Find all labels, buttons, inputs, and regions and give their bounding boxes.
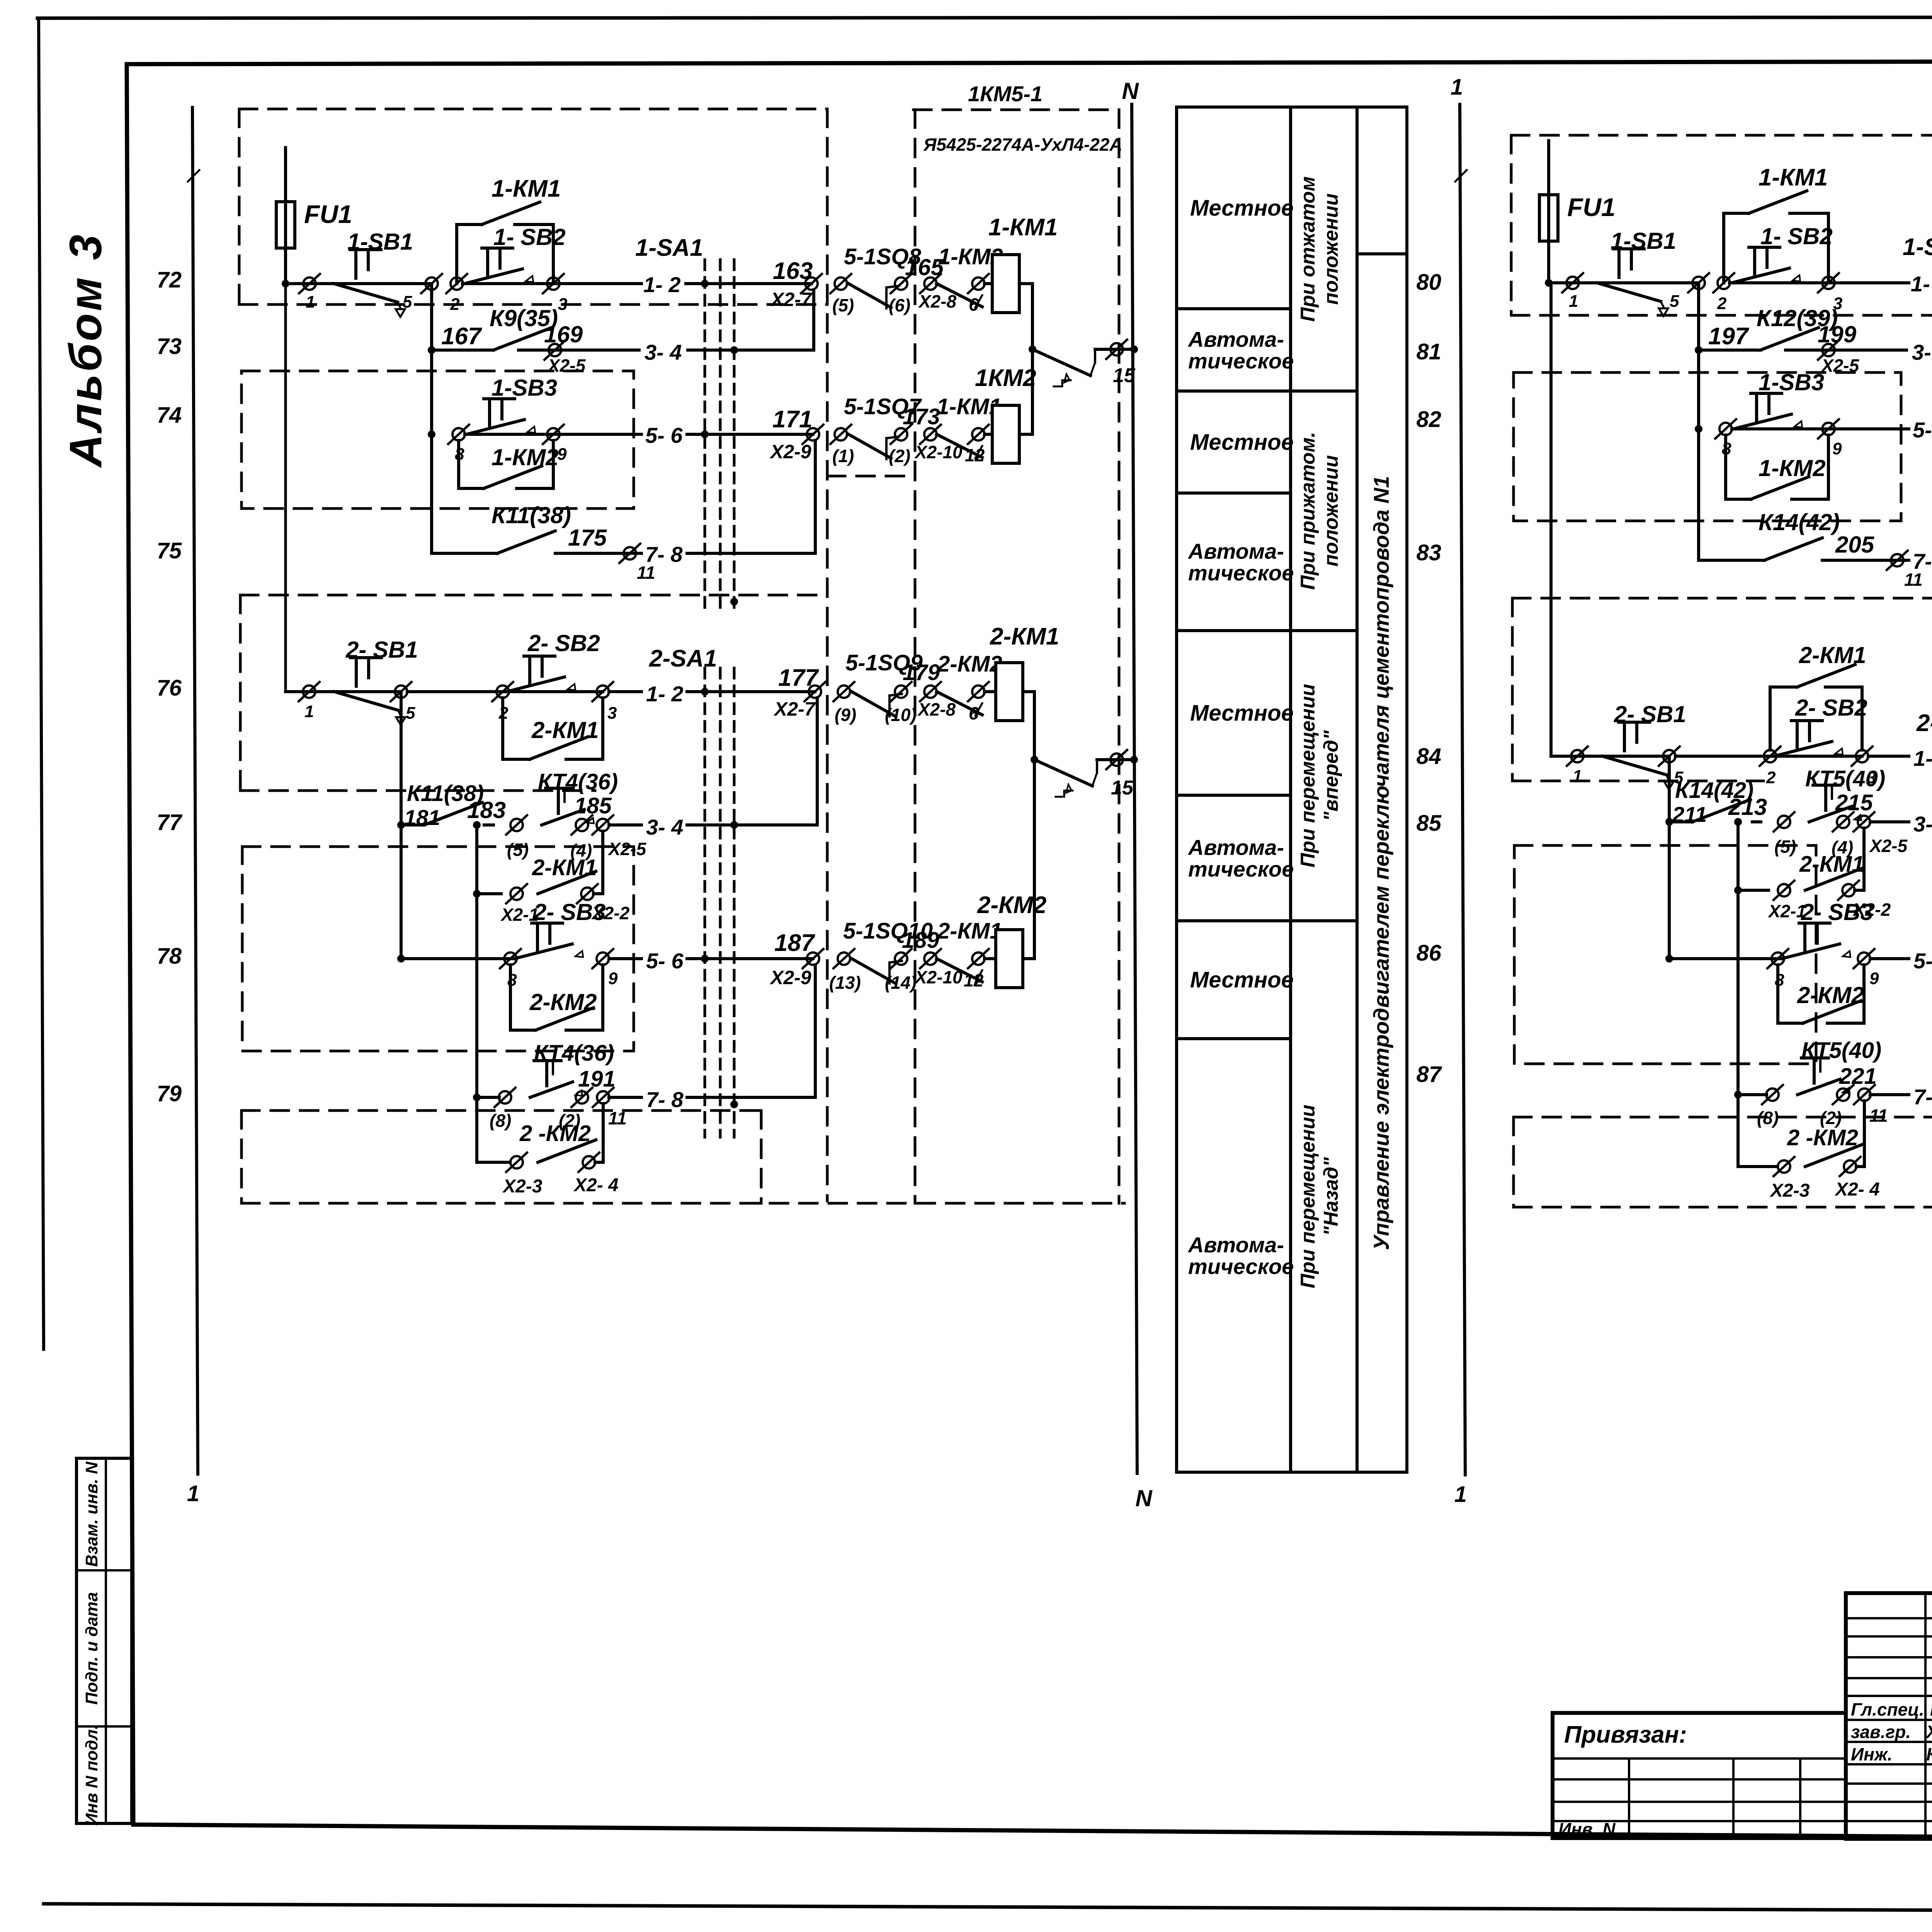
- L selfhold 1-KM2 right riser: [552, 440, 555, 488]
- R terminal 8: [1715, 419, 1736, 439]
- L terminal X2-10: [920, 425, 941, 444]
- svg-text:1КМ2: 1КМ2: [975, 365, 1036, 391]
- L cable junction dot: [701, 280, 709, 287]
- svg-text:X2-10: X2-10: [914, 967, 963, 987]
- L limit switch contact SQ7: [849, 434, 891, 458]
- svg-text:X2-5: X2-5: [1869, 836, 1908, 856]
- margin stamp line 2: [77, 1725, 132, 1728]
- svg-text:211: 211: [1672, 802, 1707, 827]
- R wire row2 3-4 lead: [1752, 820, 1761, 823]
- svg-text:1-КМ1: 1-КМ1: [492, 175, 561, 202]
- svg-text:Управление электродвигателем: Управление электродвигателем переключате…: [1369, 476, 1393, 1250]
- svg-text:2: 2: [1717, 294, 1727, 313]
- R wire row 5-6: [1732, 427, 1909, 430]
- title block outline: [1846, 1593, 1932, 1839]
- L dashed box 1 top: [239, 108, 827, 111]
- svg-text:2- SB1: 2- SB1: [345, 637, 418, 663]
- margin stamp divider: [105, 1458, 107, 1823]
- svg-text:тическое: тическое: [1188, 1254, 1294, 1279]
- svg-text:КТ5(40): КТ5(40): [1801, 1038, 1881, 1063]
- L terminal (5): [830, 274, 851, 293]
- R pushbutton 2-SB1: [1602, 722, 1673, 789]
- L terminal 11 row 7-8 lower: [593, 1088, 614, 1107]
- L wire row 7-8 right: [687, 552, 815, 555]
- L wire row 1-2 segment a: [286, 282, 432, 285]
- svg-text:(14): (14): [885, 973, 917, 993]
- svg-text:Местное: Местное: [1190, 701, 1294, 726]
- L wire row2 1-2 segment d: [687, 690, 815, 693]
- L riser X2-9 lower to row 7-8: [814, 965, 817, 1097]
- L wire row2 7-8 right: [687, 1096, 815, 1099]
- R time contact KT4 row 7-8: [1798, 1058, 1850, 1095]
- L control cable core dashed 3 upper: [733, 260, 736, 615]
- svg-text:163: 163: [773, 258, 813, 284]
- svg-text:9: 9: [1832, 439, 1842, 458]
- svg-text:12: 12: [965, 445, 985, 465]
- R terminal X2-3: [1774, 1157, 1794, 1176]
- svg-text:2-КМ2: 2-КМ2: [529, 989, 597, 1015]
- L contact 1-KM2 NC: [937, 284, 982, 307]
- svg-text:1- 2: 1- 2: [643, 272, 681, 297]
- svg-text:При прижатом.: При прижатом.: [1297, 432, 1319, 590]
- R terminal 8 lower: [1767, 949, 1788, 968]
- outer border top: [37, 17, 1932, 18]
- L bottom branch right riser: [595, 1161, 603, 1164]
- svg-text:87: 87: [1416, 1062, 1442, 1087]
- R terminal 5: [1688, 273, 1709, 293]
- svg-text:215: 215: [1835, 790, 1873, 815]
- R selfhold 1-KM2 bridge: [1726, 498, 1751, 501]
- R junction dot bus2 row 3-4: [1665, 818, 1673, 826]
- privyazan col line 1: [1628, 1759, 1630, 1838]
- svg-text:X2-8: X2-8: [917, 699, 956, 719]
- R terminal X2-5 row 3-4: [1818, 340, 1839, 360]
- L selfhold 2-KM2 contact: [536, 1008, 594, 1030]
- R dashed box 1 top: [1511, 134, 1932, 137]
- L coil 1-KM2 output wire: [1019, 433, 1032, 436]
- L terminal 15 upper: [1106, 340, 1127, 359]
- L selfhold 2-KM2 bridge: [510, 1029, 536, 1032]
- LT table col3 top line: [1357, 252, 1407, 255]
- R terminal 3: [1818, 273, 1839, 293]
- svg-text:(1): (1): [832, 446, 854, 466]
- L dashed box 5 right: [760, 1111, 763, 1203]
- L wire row 1-2 segment d: [686, 282, 811, 285]
- L control cable core dashed 1 lower: [704, 668, 706, 1137]
- R relay contact K11: [1764, 538, 1822, 560]
- L terminal (6): [891, 274, 912, 293]
- L rail junction dot upper: [1130, 345, 1138, 353]
- L selfhold 1-KM1 right riser: [552, 224, 555, 284]
- L contact 1-KM1 NC: [937, 434, 982, 457]
- R selfhold 2-KM1 contact: [1797, 665, 1855, 687]
- L terminal channel dashed left: [826, 109, 829, 1201]
- L wire to coil 2-KM1: [985, 690, 996, 693]
- L coil 1-KM1 output wire: [1019, 282, 1032, 285]
- L dashed box 1 bottom: [239, 303, 827, 306]
- L wire row 7-8: [555, 552, 641, 555]
- R terminal (5) lower: [1774, 812, 1794, 832]
- svg-text:X2-3: X2-3: [1769, 1180, 1810, 1201]
- svg-text:Я5425-2274А-УхЛ4-22А: Я5425-2274А-УхЛ4-22А: [923, 134, 1122, 155]
- L wire row 3-4 mid: [519, 349, 639, 352]
- svg-text:"Назад": "Назад": [1320, 1156, 1342, 1236]
- L junction dot 15 upper: [1029, 345, 1036, 353]
- R dashed box 5 top: [1514, 1116, 1932, 1119]
- L pushbutton 2-SB3: [514, 923, 583, 959]
- L coil 2-KM2 output wire: [1023, 957, 1034, 960]
- svg-text:5: 5: [406, 704, 415, 723]
- privyazan row line 2: [1553, 1778, 1846, 1781]
- L terminal (2) row 7-8: [571, 1088, 592, 1107]
- svg-text:1-КМ1: 1-КМ1: [1759, 164, 1828, 191]
- svg-text:FU1: FU1: [1567, 193, 1616, 221]
- svg-text:15: 15: [1111, 777, 1134, 799]
- LT table row line 4: [1177, 629, 1291, 632]
- L junction dot row1 feeder: [282, 280, 289, 287]
- L pushbutton 2-SB2: [507, 656, 575, 692]
- LT table col2 merge line 2: [1291, 629, 1357, 632]
- L wire to coil KM1: [985, 282, 992, 285]
- L coil 1-KM2: [992, 405, 1019, 463]
- svg-text:X2-1: X2-1: [1767, 901, 1806, 921]
- L wire 15 to rail upper: [1094, 349, 1096, 362]
- L terminal 3 lower: [592, 682, 613, 701]
- svg-text:При перемещении: При перемещении: [1297, 684, 1319, 867]
- L connector box top dashed: [913, 109, 1119, 111]
- svg-text:2-КМ1: 2-КМ1: [531, 717, 599, 743]
- L dashed box 3 bottom: [240, 789, 595, 792]
- L terminal 12 lower: [968, 949, 989, 968]
- svg-text:Хрипушкина: Хрипушкина: [1925, 1722, 1932, 1742]
- svg-text:К11(38): К11(38): [492, 502, 571, 528]
- L terminal X2-1: [506, 884, 527, 903]
- svg-text:положении: положении: [1320, 455, 1342, 566]
- R terminal 1: [1562, 273, 1583, 293]
- R pushbutton 1-SB3: [1733, 393, 1802, 429]
- privyazan col line 2: [1732, 1759, 1735, 1838]
- R relay contact K11 lower lead: [1669, 820, 1692, 823]
- L selfhold 2-KM1 right riser: [601, 698, 604, 759]
- svg-text:1: 1: [1454, 1482, 1467, 1507]
- svg-text:X2-7: X2-7: [770, 289, 813, 310]
- L junction dot parallel branch: [473, 890, 481, 898]
- svg-text:2-КМ1: 2-КМ1: [532, 855, 597, 880]
- svg-text:1- 2: 1- 2: [646, 682, 684, 706]
- L terminal 3: [543, 274, 564, 293]
- L coil 1-KM1: [992, 255, 1019, 313]
- L junction dot row5-6: [428, 430, 435, 438]
- svg-text:Местное: Местное: [1190, 968, 1294, 993]
- svg-text:X2-9: X2-9: [769, 967, 811, 988]
- LT table row line 3: [1177, 492, 1291, 495]
- svg-text:КТ5(40): КТ5(40): [1805, 766, 1885, 791]
- svg-text:205: 205: [1835, 532, 1875, 558]
- svg-text:1: 1: [1569, 292, 1578, 311]
- svg-text:9: 9: [557, 445, 567, 464]
- svg-text:(8): (8): [490, 1111, 511, 1131]
- L bus3 lower: [475, 825, 478, 1162]
- R dashed box 3 top: [1512, 597, 1932, 600]
- R terminal 9: [1818, 419, 1839, 439]
- R selfhold 2-KM2 left riser: [1776, 965, 1779, 1023]
- svg-text:197: 197: [1708, 323, 1749, 350]
- svg-text:9: 9: [608, 969, 618, 988]
- svg-text:Автома-: Автома-: [1187, 539, 1284, 563]
- L parallel branch right riser: [594, 892, 603, 895]
- R terminal X2-4: [1840, 1157, 1861, 1176]
- LT table row line 1: [1177, 307, 1291, 310]
- L terminal (5) lower: [506, 815, 527, 835]
- R pushbutton 2-SB2: [1774, 721, 1843, 756]
- R relay contact K11 lower: [1692, 799, 1750, 822]
- L pushbutton 1-SB2: [464, 248, 533, 284]
- L junction dot 15 lower: [1031, 756, 1038, 764]
- L junction dot bus2 row 3-4: [397, 821, 405, 829]
- L terminal (1): [830, 425, 851, 444]
- L pushbutton 2-SB1: [334, 658, 405, 725]
- L wire row 1-2 segment c: [553, 282, 641, 285]
- L terminal 6 lower: [968, 682, 989, 701]
- privyazan col line 3: [1799, 1759, 1801, 1838]
- svg-text:9: 9: [1869, 969, 1879, 988]
- L contact 2-KM1 parallel: [538, 871, 596, 894]
- R bus extension to row 7-8: [1697, 429, 1700, 560]
- svg-text:1: 1: [304, 702, 314, 721]
- L dashed box 1 left: [238, 109, 241, 304]
- margin stamp line 1: [77, 1569, 132, 1571]
- svg-text:2- SB1: 2- SB1: [1614, 701, 1686, 727]
- svg-text:КТ4(36): КТ4(36): [534, 1041, 614, 1066]
- svg-text:1-SB3: 1-SB3: [492, 375, 557, 401]
- L selfhold 1-KM1 bridge: [457, 223, 482, 226]
- svg-text:Местное: Местное: [1190, 430, 1294, 455]
- L riser X2-7 lower to row 3-4: [816, 698, 819, 825]
- L terminal 6: [968, 274, 989, 293]
- svg-text:(13): (13): [829, 973, 861, 993]
- R time contact KT4 row 3-4: [1809, 785, 1861, 822]
- svg-text:5- 6: 5- 6: [646, 949, 684, 973]
- R dashed box 2: [1514, 372, 1901, 521]
- svg-text:6: 6: [969, 294, 979, 315]
- L bottom dashed line: [241, 1202, 1124, 1205]
- L terminal X2-2: [577, 884, 598, 903]
- L selfhold 1-KM1 left riser: [455, 224, 458, 284]
- L terminal 11 row 7-8: [619, 544, 640, 563]
- L contact 2-KM2 NC: [937, 692, 982, 715]
- R wire row2 1-2 segment c: [1868, 755, 1909, 758]
- L wire 15 to rail lower: [1096, 760, 1098, 773]
- R selfhold 2-KM2 bridge: [1778, 1022, 1803, 1025]
- L terminal X2-7 lower: [804, 682, 825, 701]
- svg-text:Гл.спец.: Гл.спец.: [1851, 1699, 1924, 1719]
- svg-text:5- 6: 5- 6: [645, 423, 683, 447]
- svg-text:81: 81: [1416, 339, 1441, 364]
- R left rail line 1: [1460, 104, 1465, 1475]
- R selfhold 1-KM1 right riser: [1827, 213, 1830, 283]
- R fuse FU1 feeder wire: [1547, 141, 1550, 283]
- L fuse FU1 feeder wire: [284, 148, 287, 284]
- R left rail tick: [1455, 170, 1467, 182]
- svg-text:"вперед": "вперед": [1320, 730, 1342, 821]
- L junction dot bus2 row 5-6: [397, 955, 405, 963]
- LT table col1 divider: [1289, 107, 1292, 1472]
- svg-text:3- 4: 3- 4: [1912, 340, 1932, 364]
- svg-text:8: 8: [507, 971, 517, 990]
- svg-text:1-SА1: 1-SА1: [1903, 234, 1932, 260]
- R selfhold 1-KM1 contact: [1749, 191, 1807, 213]
- svg-text:Инв N подл.: Инв N подл.: [82, 1725, 101, 1826]
- L limit switch contact SQ10: [852, 959, 894, 983]
- svg-text:2-КМ1: 2-КМ1: [1799, 852, 1864, 877]
- svg-text:5: 5: [1670, 292, 1679, 311]
- svg-text:1: 1: [1573, 767, 1582, 786]
- svg-text:2-КМ2: 2-КМ2: [1797, 982, 1864, 1008]
- svg-text:7- 8: 7- 8: [646, 1087, 684, 1112]
- R terminal 1 lower: [1567, 747, 1588, 766]
- R terminal 3 lower: [1852, 747, 1872, 766]
- svg-text:X2-8: X2-8: [918, 291, 957, 311]
- svg-text:X2- 4: X2- 4: [573, 1175, 619, 1196]
- L relay contact K9: [493, 328, 551, 350]
- R wire row2 7-8 lead: [1738, 1093, 1767, 1096]
- L bus2 lower: [400, 692, 403, 959]
- svg-text:5- 6: 5- 6: [1913, 418, 1932, 442]
- LT table col2 divider: [1355, 107, 1359, 1472]
- L terminal channel divider dash: [827, 475, 915, 478]
- R feeder to lower group: [1549, 283, 1553, 756]
- R terminal 9 lower: [1854, 949, 1874, 968]
- L terminal (10): [891, 682, 912, 701]
- L wire row2 1-2 segment a: [286, 690, 401, 693]
- L control cable core dashed 2 upper: [719, 260, 722, 615]
- svg-text:85: 85: [1416, 811, 1441, 836]
- L left rail tick: [188, 170, 199, 182]
- svg-text:X2-5: X2-5: [1820, 355, 1860, 376]
- L terminal X2-9: [803, 425, 823, 444]
- R terminal (2) row 7-8: [1833, 1085, 1854, 1104]
- R bottom dashed line: [1514, 1206, 1932, 1209]
- R selfhold 1-KM2 right riser: [1827, 435, 1830, 499]
- L neutral rail line N: [1132, 104, 1137, 1473]
- L terminal X2-5 lower: [592, 815, 613, 835]
- svg-text:Местное: Местное: [1190, 196, 1294, 221]
- svg-text:5: 5: [403, 293, 412, 311]
- L bottom branch wire: [477, 1161, 509, 1164]
- R terminal 11 row 7-8 lower: [1854, 1085, 1875, 1104]
- R bottom branch wire: [1738, 1165, 1776, 1168]
- R relay contact K9: [1760, 328, 1818, 350]
- L left rail line 1: [192, 107, 198, 1474]
- svg-text:2-КМ2: 2-КМ2: [977, 892, 1046, 918]
- L wire to coil KM2: [985, 433, 992, 436]
- L time contact KT4 row 7-8: [530, 1061, 582, 1097]
- R dashed box 3 left: [1511, 598, 1514, 781]
- R selfhold 1-KM2 left riser: [1724, 435, 1727, 499]
- R pushbutton 2-SB3: [1782, 923, 1850, 959]
- svg-text:FU1: FU1: [304, 200, 352, 228]
- svg-text:1- 2: 1- 2: [1911, 272, 1932, 296]
- L terminal channel dashed right: [914, 110, 917, 1203]
- svg-text:2- SB3: 2- SB3: [1801, 899, 1873, 925]
- R selfhold 2-KM1 left riser: [1769, 687, 1772, 750]
- svg-text:15: 15: [1113, 364, 1136, 387]
- L relay contact K11 lead: [432, 552, 497, 555]
- svg-text:тическое: тическое: [1188, 857, 1294, 881]
- L terminal X2-3: [506, 1153, 527, 1172]
- svg-text:173: 173: [903, 404, 940, 429]
- L connector box right dashed: [1118, 110, 1121, 1203]
- svg-text:1-SB1: 1-SB1: [1611, 228, 1676, 254]
- L dashed box 3 left: [239, 595, 242, 791]
- svg-text:76: 76: [156, 675, 182, 701]
- svg-text:3- 4: 3- 4: [646, 815, 684, 839]
- svg-text:2- SB3: 2- SB3: [533, 899, 606, 925]
- L feeder to lower group: [284, 284, 287, 692]
- R dashed box 1 bottom: [1511, 314, 1932, 317]
- R wire row 7-8: [1822, 559, 1909, 562]
- outer border bottom: [44, 1904, 1932, 1913]
- L dashed box 5 left: [240, 1111, 243, 1203]
- svg-text:2: 2: [1766, 768, 1776, 787]
- L terminal X2-7: [801, 274, 822, 293]
- R wire row2 5-6: [1870, 957, 1909, 960]
- svg-text:11: 11: [608, 1108, 627, 1128]
- svg-text:84: 84: [1416, 744, 1441, 769]
- svg-text:169: 169: [544, 321, 583, 347]
- svg-text:(9): (9): [835, 705, 856, 725]
- R selfhold 2-KM2 contact: [1803, 1001, 1861, 1023]
- svg-text:199: 199: [1818, 321, 1857, 347]
- L selfhold 1-KM2 contact: [484, 466, 542, 488]
- privyazan row line 3: [1553, 1801, 1846, 1803]
- svg-text:3: 3: [558, 295, 567, 314]
- L terminal (2): [891, 425, 912, 444]
- privyazan row line 4: [1553, 1820, 1846, 1822]
- R selfhold 1-KM1 bridge: [1724, 212, 1749, 215]
- svg-text:2- SB2: 2- SB2: [527, 630, 600, 656]
- svg-text:1-SB3: 1-SB3: [1759, 369, 1824, 395]
- L terminal (4) lower: [571, 815, 592, 835]
- L terminal X2-8 lower: [920, 682, 941, 701]
- svg-text:171: 171: [772, 406, 812, 433]
- svg-text:189: 189: [902, 928, 939, 953]
- L wire row2 3-4 right: [609, 823, 641, 827]
- R relay contact K11 lead: [1699, 559, 1764, 562]
- svg-text:тическое: тическое: [1188, 349, 1294, 373]
- L bus extension to row 7-8: [430, 434, 433, 553]
- svg-text:12: 12: [964, 970, 984, 990]
- svg-text:Привязан:: Привязан:: [1564, 1721, 1687, 1748]
- L fuse FU1: [276, 202, 295, 248]
- R selfhold 2-KM1 right riser: [1861, 687, 1864, 750]
- L cable junction dot: [701, 955, 709, 963]
- L selfhold 2-KM1 left riser: [501, 698, 504, 759]
- L cable junction dot: [730, 821, 738, 829]
- L wire row2 1-2 segment c: [609, 690, 641, 693]
- L limit switch contact SQ9: [852, 692, 894, 716]
- L terminal 12: [968, 425, 989, 444]
- L control cable core dashed 3 lower: [733, 668, 736, 1137]
- R selfhold 1-KM1 left riser: [1722, 213, 1725, 283]
- L terminal X2-4: [578, 1153, 599, 1172]
- R selfhold 2-KM2 right riser: [1862, 965, 1866, 1023]
- L wire row 5-6 right: [687, 433, 813, 436]
- L terminal 1 lower: [299, 682, 320, 701]
- margin stamp table: [77, 1458, 132, 1823]
- R wire row2 1-2 segment b: [1675, 755, 1862, 758]
- svg-text:1: 1: [187, 1481, 199, 1506]
